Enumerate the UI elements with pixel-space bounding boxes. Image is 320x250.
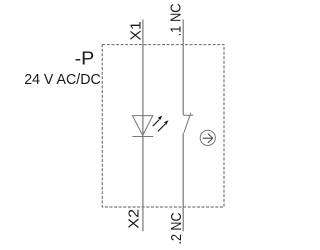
terminal label X1 xyxy=(127,21,144,40)
terminal label .1 NC xyxy=(167,3,184,36)
enclosure outline (dashed) xyxy=(102,45,224,207)
wire: lamp branch X1-X2 xyxy=(142,20,144,232)
terminal label X2 xyxy=(126,209,143,229)
svg-text:24 V AC/DC: 24 V AC/DC xyxy=(24,72,101,88)
svg-text:.2 NC: .2 NC xyxy=(168,212,185,244)
lamp LED triangle xyxy=(132,116,152,136)
terminal label .2 NC xyxy=(168,212,185,244)
LED emission arrow 2 xyxy=(158,120,169,131)
LED emission arrow 1 xyxy=(153,116,163,127)
wire: contact branch lower (.2) xyxy=(182,133,184,231)
svg-text:X2: X2 xyxy=(126,209,143,229)
NC contact fixed tick xyxy=(183,114,193,116)
actuator symbol circle xyxy=(200,130,215,145)
svg-text:-P: -P xyxy=(75,48,95,69)
svg-text:.1 NC: .1 NC xyxy=(167,3,184,36)
svg-text:X1: X1 xyxy=(127,21,144,40)
lamp LED cathode bar xyxy=(132,136,153,138)
NC contact lever xyxy=(184,113,191,133)
actuator symbol arrow xyxy=(203,134,213,143)
wire: contact branch upper (.1) xyxy=(182,20,184,115)
